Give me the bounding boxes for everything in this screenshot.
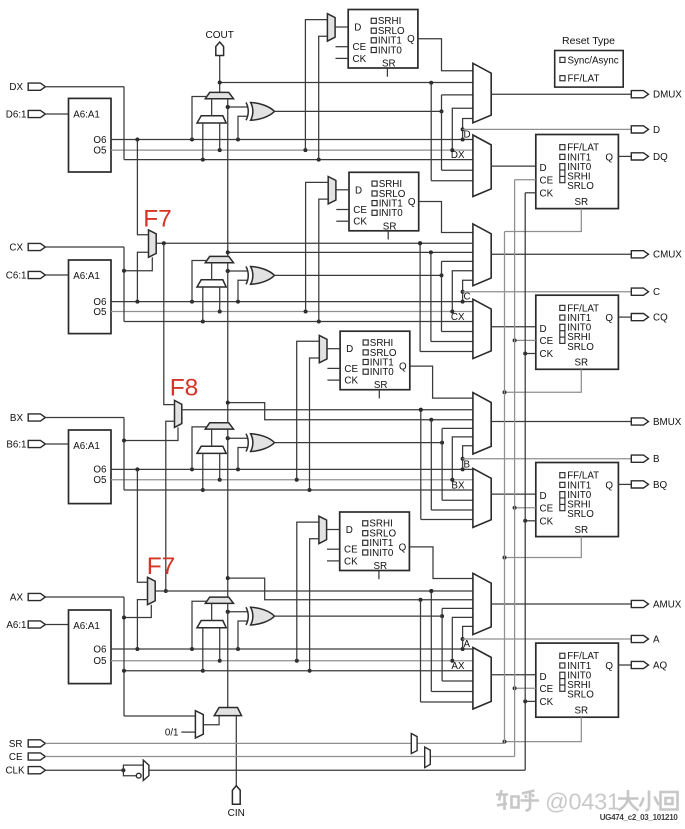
svg-text:O5: O5 bbox=[93, 475, 107, 486]
wire A6:1 to LUT A bbox=[45, 624, 68, 626]
svg-text:DX: DX bbox=[9, 82, 23, 93]
svg-text:D: D bbox=[346, 344, 353, 355]
output connector CMUX bbox=[631, 251, 648, 258]
mux on CE line bbox=[425, 747, 431, 768]
wire DMUX output bbox=[491, 93, 631, 95]
wire O5 to B5FF mux bbox=[297, 341, 320, 480]
wire CLK bus bbox=[45, 193, 525, 772]
wire CE to DFF bbox=[515, 179, 536, 181]
svg-text:D: D bbox=[540, 163, 547, 174]
output connector DQ bbox=[631, 153, 648, 160]
wire O5-mux to CX line (C) bbox=[202, 287, 204, 322]
svg-text:INIT0: INIT0 bbox=[370, 367, 395, 378]
svg-text:D: D bbox=[540, 324, 547, 335]
wire carry to XOR top input (A) bbox=[226, 610, 247, 614]
svg-text:O6: O6 bbox=[93, 644, 107, 655]
wire C5FF CK stub bbox=[336, 220, 349, 222]
svg-text:Q: Q bbox=[605, 661, 613, 672]
svg-text:DX: DX bbox=[451, 150, 465, 161]
LUT A6:A1 (B) bbox=[69, 430, 112, 504]
wire BX bypass bbox=[45, 418, 473, 493]
svg-text:D: D bbox=[346, 525, 353, 536]
svg-text:AX: AX bbox=[10, 592, 24, 603]
svg-text:INIT0: INIT0 bbox=[379, 208, 404, 219]
storage element BFF/LAT bbox=[536, 463, 619, 537]
wire O5 (B) bbox=[111, 478, 473, 482]
output mux BMUX bbox=[473, 393, 491, 454]
wire BMUX output bbox=[491, 421, 631, 423]
wire O5 to A5FF mux bbox=[297, 522, 319, 661]
wire 0/1 mux to CYINIT bbox=[203, 716, 219, 725]
wire carry to XOR top input (B) bbox=[226, 436, 247, 440]
wire O5-mux to BX line (B) bbox=[202, 453, 204, 490]
wire O6(A) to F7 input bbox=[137, 600, 147, 649]
output connector AQ bbox=[631, 661, 648, 668]
svg-text:BX: BX bbox=[451, 480, 465, 491]
wire O6(C) to F7 input bbox=[137, 252, 148, 301]
watermark zhihu @0431 bbox=[496, 789, 678, 815]
wire 0/1 stub bbox=[181, 731, 195, 733]
wire CX to C5FF mux bbox=[319, 199, 328, 321]
wire CLK to CFF bbox=[523, 352, 536, 356]
wire O5-mux to O5 line (C) bbox=[219, 287, 221, 312]
node CIN bbox=[232, 786, 240, 805]
wire DFF Q output bbox=[618, 155, 631, 157]
storage element D5FF bbox=[348, 10, 418, 70]
svg-text:D: D bbox=[540, 491, 547, 502]
svg-text:CK: CK bbox=[344, 376, 358, 387]
wire F-mux branch (C) bbox=[418, 241, 473, 351]
wire CLK inverted branch bbox=[123, 770, 136, 776]
wire B output bbox=[463, 458, 632, 460]
wire D5FF D input bbox=[335, 26, 348, 28]
mux CLK inversion bbox=[143, 760, 149, 780]
mux F7 (D/C) bbox=[149, 230, 157, 257]
wire A5FF CK stub bbox=[327, 560, 340, 562]
wire XOR output (C) bbox=[275, 261, 473, 331]
output connector BQ bbox=[631, 481, 648, 488]
wire mux to BFF D bbox=[491, 493, 536, 495]
svg-text:AX: AX bbox=[451, 661, 465, 672]
svg-text:D: D bbox=[464, 130, 471, 141]
wire AFF SR bbox=[503, 717, 582, 743]
wire O6 to output mux (D) bbox=[461, 119, 473, 140]
mux for C5FF D input bbox=[328, 177, 336, 204]
svg-text:SR: SR bbox=[574, 197, 588, 208]
svg-text:CX: CX bbox=[451, 312, 465, 323]
svg-text:CK: CK bbox=[540, 188, 554, 199]
output connector DMUX bbox=[631, 91, 648, 98]
wire AX to 0/1 mux bbox=[122, 669, 195, 716]
svg-text:CE: CE bbox=[9, 752, 23, 763]
carry O5 mux (D) bbox=[197, 116, 226, 123]
output connector B bbox=[631, 455, 648, 462]
LUT A6:A1 (C) bbox=[69, 260, 112, 334]
svg-text:CK: CK bbox=[540, 349, 554, 360]
input connector AX bbox=[28, 593, 45, 600]
svg-text:CK: CK bbox=[540, 516, 554, 527]
svg-text:Q: Q bbox=[407, 34, 415, 45]
mux CYINIT bbox=[214, 708, 241, 716]
wire D5FF CE stub bbox=[336, 46, 349, 48]
svg-text:Q: Q bbox=[605, 480, 613, 491]
wire AMUX output bbox=[491, 603, 631, 605]
svg-text:SRLO: SRLO bbox=[567, 181, 594, 192]
wire O6 select to MUXCY (B) bbox=[192, 427, 207, 470]
wire O6 (C) to output mux bbox=[111, 300, 473, 304]
svg-text:CLK: CLK bbox=[5, 766, 25, 777]
wire BX to B5FF mux bbox=[310, 358, 320, 490]
wire O6 to output mux (C) bbox=[461, 280, 473, 301]
wire XOR output (D) bbox=[275, 95, 473, 170]
wire A5FF CE stub bbox=[327, 548, 340, 550]
storage element C5FF bbox=[349, 172, 419, 232]
wire mux to DFF D bbox=[491, 165, 536, 167]
wire CLK to BFF bbox=[523, 519, 536, 523]
svg-text:@0431: @0431 bbox=[545, 789, 620, 815]
output connector D bbox=[631, 126, 648, 133]
wire CE bus bbox=[45, 180, 514, 757]
wire O5 to output mux (C) bbox=[452, 271, 473, 312]
wire A5FF D input bbox=[327, 529, 340, 531]
wire O6 to XOR bottom input (B) bbox=[238, 448, 248, 470]
svg-text:COUT: COUT bbox=[206, 30, 234, 41]
svg-text:BMUX: BMUX bbox=[653, 417, 682, 428]
storage element A5FF bbox=[340, 512, 410, 572]
wire F7(D/C) to F8 input bbox=[164, 243, 175, 404]
wire O5 to D5FF mux bbox=[305, 20, 327, 151]
svg-text:CK: CK bbox=[353, 217, 367, 228]
wire CX select to F7 bbox=[122, 257, 152, 273]
wire COUT stub bbox=[218, 56, 222, 93]
legend Reset Type bbox=[555, 35, 624, 87]
svg-text:O5: O5 bbox=[93, 307, 107, 318]
output connector A bbox=[631, 635, 648, 642]
svg-text:A6:1: A6:1 bbox=[6, 620, 26, 631]
wire CLK true branch bbox=[123, 765, 143, 770]
wire F7 (B/A) output bbox=[155, 589, 473, 593]
wire O6 to output mux (A) bbox=[461, 626, 473, 649]
svg-text:CE: CE bbox=[540, 503, 554, 514]
wire O5-mux to O5 line (A) bbox=[219, 628, 221, 661]
wire XOR output (B) bbox=[275, 428, 473, 500]
wire MUXCY to O5-mux (D) bbox=[211, 99, 213, 116]
wire F7(B/A) to F8 input bbox=[164, 421, 175, 593]
storage element DFF/LAT bbox=[536, 135, 619, 209]
wire CX bypass bbox=[45, 247, 473, 324]
svg-text:CE: CE bbox=[344, 364, 358, 375]
input connector CE bbox=[28, 753, 45, 760]
svg-text:D: D bbox=[540, 672, 547, 683]
svg-text:Q: Q bbox=[408, 197, 416, 208]
svg-text:A: A bbox=[653, 634, 660, 645]
wire O5 (C) bbox=[111, 310, 473, 314]
wire C5FF D input bbox=[336, 189, 349, 191]
wire D5FF CK stub bbox=[336, 57, 349, 59]
output connector CQ bbox=[631, 314, 648, 321]
wire CE to CFF bbox=[513, 338, 536, 342]
svg-text:CE: CE bbox=[353, 42, 367, 53]
output mux AMUX bbox=[473, 573, 491, 634]
output mux CMUX bbox=[473, 224, 491, 286]
svg-text:SR: SR bbox=[373, 561, 387, 572]
wire carry-out tap (D) bbox=[220, 81, 473, 181]
svg-text:SR: SR bbox=[382, 59, 396, 70]
wire D5FF SR stub bbox=[386, 68, 388, 77]
wire O6 to XOR bottom input (A) bbox=[238, 621, 248, 649]
svg-text:C: C bbox=[653, 287, 660, 298]
svg-text:F7: F7 bbox=[143, 206, 172, 233]
svg-text:CK: CK bbox=[344, 556, 358, 567]
mux for D5FF D input bbox=[327, 14, 335, 41]
wire O6 (A) to output mux bbox=[111, 647, 473, 651]
wire O5 (A) bbox=[111, 659, 473, 663]
wire carry-out tap (A) bbox=[228, 578, 473, 702]
wire DX to D5FF mux bbox=[319, 36, 328, 159]
carry O5 mux (A) bbox=[197, 621, 226, 628]
input connector D6:1 bbox=[28, 110, 45, 117]
wire C6:1 to LUT C bbox=[45, 274, 68, 276]
inverter bubble on CLK bbox=[136, 773, 141, 778]
wire CFF SR bbox=[503, 369, 582, 394]
wire B6:1 to LUT B bbox=[45, 443, 68, 445]
wire MUXCY to O5-mux (A) bbox=[211, 603, 213, 620]
wire D5FF Q to output mux bbox=[418, 39, 473, 71]
input connector A6:1 bbox=[28, 621, 45, 628]
input connector BX bbox=[28, 414, 45, 421]
wire O6 (B) to output mux bbox=[111, 467, 473, 471]
wire C5FF Q to output mux bbox=[419, 202, 473, 233]
svg-text:Q: Q bbox=[399, 542, 407, 553]
svg-text:F7: F7 bbox=[147, 553, 176, 580]
wire CFF Q output bbox=[618, 316, 631, 318]
input mux for DFF bbox=[473, 135, 491, 197]
wire MUXCY to O5-mux (C) bbox=[211, 263, 213, 280]
wire CE to AFF bbox=[513, 686, 536, 690]
output connector C bbox=[631, 288, 648, 295]
svg-text:D: D bbox=[653, 125, 660, 136]
wire O6 to output mux (B) bbox=[461, 446, 473, 470]
wire A output bbox=[463, 638, 632, 640]
wire F-mux branch (A) bbox=[429, 589, 473, 692]
input mux for BFF bbox=[473, 468, 491, 527]
storage element B5FF bbox=[340, 331, 410, 391]
wire O6 select to MUXCY (C) bbox=[192, 261, 207, 302]
svg-text:CE: CE bbox=[540, 175, 554, 186]
wire A5FF Q to output mux bbox=[409, 547, 473, 579]
svg-text:CE: CE bbox=[540, 336, 554, 347]
wire O5-mux to AX line (A) bbox=[202, 628, 204, 671]
wire AX bypass bbox=[45, 597, 473, 673]
svg-text:SRLO: SRLO bbox=[567, 690, 594, 701]
svg-text:C: C bbox=[464, 292, 471, 303]
svg-text:Reset Type: Reset Type bbox=[562, 35, 615, 47]
mux F7 (B/A) bbox=[148, 577, 156, 604]
svg-text:A6:A1: A6:A1 bbox=[73, 271, 100, 282]
wire D output bbox=[463, 128, 632, 130]
svg-text:INIT0: INIT0 bbox=[369, 548, 394, 559]
carry MUXCY (C) bbox=[205, 256, 233, 262]
svg-text:CK: CK bbox=[540, 697, 554, 708]
wire BX select to F8 bbox=[122, 427, 178, 442]
wire C output bbox=[463, 291, 632, 293]
wire B5FF CK stub bbox=[327, 379, 340, 381]
svg-text:SR: SR bbox=[574, 705, 588, 716]
wire carry-out tap (B) bbox=[228, 403, 473, 510]
mux for B5FF D input bbox=[319, 335, 327, 362]
wire F7 (D/C) output bbox=[156, 241, 473, 245]
wire A5FF SR stub bbox=[378, 571, 380, 580]
wire O6 to XOR bottom input (C) bbox=[238, 280, 248, 301]
svg-text:B6:1: B6:1 bbox=[6, 439, 26, 450]
wire C5FF CE stub bbox=[336, 209, 349, 211]
wire CLK to DFF bbox=[525, 192, 536, 194]
wire carry-out tap (C) bbox=[228, 250, 473, 341]
wire O6(D) to F7 input bbox=[137, 140, 148, 235]
svg-text:BX: BX bbox=[10, 413, 24, 424]
wire B5FF D input bbox=[327, 348, 340, 350]
carry O5 mux (B) bbox=[197, 446, 226, 453]
wire O5-mux to O5 line (B) bbox=[219, 453, 221, 479]
wire CIN to CYINIT bbox=[235, 716, 237, 786]
wire O6 to XOR bottom input (D) bbox=[238, 116, 248, 139]
LUT A6:A1 (A) bbox=[69, 610, 112, 684]
svg-text:A6:A1: A6:A1 bbox=[73, 621, 100, 632]
input mux for AFF bbox=[473, 648, 491, 710]
wire carry chain B->C bbox=[226, 263, 230, 441]
wire DFF SR bbox=[505, 209, 582, 232]
mux 0/1 (CYINIT select) bbox=[195, 711, 203, 738]
carry MUXCY (A) bbox=[205, 597, 233, 603]
wire CLK to AFF bbox=[523, 699, 536, 703]
svg-text:CE: CE bbox=[344, 545, 358, 556]
wire XOR output (A) bbox=[275, 608, 473, 681]
svg-text:CE: CE bbox=[540, 684, 554, 695]
input connector B6:1 bbox=[28, 440, 45, 447]
svg-text:INIT0: INIT0 bbox=[378, 45, 403, 56]
svg-text:CMUX: CMUX bbox=[653, 250, 682, 261]
svg-text:SR: SR bbox=[574, 358, 588, 369]
svg-text:Q: Q bbox=[605, 313, 613, 324]
svg-text:O5: O5 bbox=[93, 656, 107, 667]
svg-text:Sync/Async: Sync/Async bbox=[568, 55, 619, 66]
svg-text:BQ: BQ bbox=[653, 480, 668, 491]
output mux DMUX bbox=[473, 63, 491, 123]
XOR gate XORCY (B) bbox=[246, 434, 275, 452]
wire O5 to output mux (D) bbox=[452, 108, 473, 150]
svg-text:DQ: DQ bbox=[653, 152, 668, 163]
svg-text:A6:A1: A6:A1 bbox=[73, 110, 100, 121]
wire DX bypass bbox=[45, 87, 473, 162]
svg-text:0/1: 0/1 bbox=[165, 727, 179, 738]
wire O6 select to MUXCY (D) bbox=[192, 97, 207, 140]
carry O5 mux (C) bbox=[197, 280, 226, 287]
output connector BMUX bbox=[631, 418, 648, 425]
input connector CLK bbox=[28, 767, 45, 774]
carry MUXCY (D) bbox=[205, 92, 233, 98]
input mux for CFF bbox=[473, 299, 491, 358]
node COUT bbox=[216, 42, 224, 56]
wire AX to A5FF mux bbox=[310, 539, 319, 671]
storage element CFF/LAT bbox=[536, 295, 619, 369]
wire CMUX output bbox=[491, 253, 631, 255]
mux on SR line bbox=[411, 734, 417, 754]
svg-text:Q: Q bbox=[399, 362, 407, 373]
svg-text:CIN: CIN bbox=[228, 808, 245, 819]
wire B5FF Q to output mux bbox=[410, 366, 473, 398]
svg-text:A6:A1: A6:A1 bbox=[73, 441, 100, 452]
wire F-mux branch (B) bbox=[419, 408, 473, 520]
svg-text:CX: CX bbox=[9, 242, 23, 253]
svg-text:SR: SR bbox=[374, 380, 388, 391]
wire MUXCY to O5-mux (B) bbox=[211, 429, 213, 446]
svg-text:O5: O5 bbox=[93, 145, 107, 156]
svg-text:CE: CE bbox=[353, 205, 367, 216]
wire B5FF CE stub bbox=[327, 367, 340, 369]
wire carry to XOR top input (C) bbox=[226, 269, 247, 273]
svg-text:SR: SR bbox=[383, 221, 397, 232]
wire carry chain CYINIT->A bbox=[227, 603, 229, 707]
svg-text:D6:1: D6:1 bbox=[6, 109, 27, 120]
svg-text:D: D bbox=[355, 185, 362, 196]
LUT A6:A1 (D) bbox=[69, 98, 112, 172]
wire AFF Q output bbox=[618, 664, 631, 666]
input connector DX bbox=[28, 83, 45, 90]
svg-text:SR: SR bbox=[9, 739, 23, 750]
svg-text:B: B bbox=[653, 454, 660, 465]
output connector AMUX bbox=[631, 600, 648, 607]
wire carry to XOR top input (D) bbox=[226, 105, 247, 109]
svg-text:F8: F8 bbox=[170, 375, 199, 402]
storage element AFF/LAT bbox=[536, 643, 619, 717]
wire carry chain C->D bbox=[226, 99, 230, 273]
svg-text:FF/LAT: FF/LAT bbox=[568, 74, 600, 85]
wire CE to BFF bbox=[513, 506, 536, 510]
wire AX select to F7 bbox=[122, 605, 151, 620]
svg-text:DMUX: DMUX bbox=[653, 90, 682, 101]
svg-text:SRLO: SRLO bbox=[567, 509, 594, 520]
XOR gate XORCY (D) bbox=[246, 103, 275, 121]
carry MUXCY (B) bbox=[205, 423, 233, 429]
wire O5-mux to O5 line (D) bbox=[219, 123, 221, 150]
input connector C6:1 bbox=[28, 271, 45, 278]
wire O6(B) to F7 input bbox=[137, 469, 147, 582]
input connector SR bbox=[28, 740, 45, 747]
svg-text:B: B bbox=[464, 459, 471, 470]
wire O5 to C5FF mux bbox=[306, 182, 329, 311]
wire F8 output bbox=[182, 408, 473, 412]
svg-text:AQ: AQ bbox=[653, 660, 668, 671]
wire B5FF SR stub bbox=[378, 390, 380, 399]
svg-text:Q: Q bbox=[605, 152, 613, 163]
mux F8 bbox=[175, 400, 182, 427]
wire C5FF SR stub bbox=[387, 231, 389, 240]
wire O5 to output mux (A) bbox=[452, 617, 473, 660]
wire carry chain A->B bbox=[226, 429, 230, 614]
XOR gate XORCY (A) bbox=[246, 607, 275, 625]
XOR gate XORCY (C) bbox=[246, 267, 275, 285]
svg-text:AMUX: AMUX bbox=[653, 599, 682, 610]
svg-text:CK: CK bbox=[353, 54, 367, 65]
wire BFF SR bbox=[503, 537, 582, 560]
input connector CX bbox=[28, 243, 45, 250]
wire mux to CFF D bbox=[491, 326, 536, 328]
svg-text:A: A bbox=[464, 639, 471, 650]
svg-text:CQ: CQ bbox=[653, 313, 668, 324]
svg-text:SR: SR bbox=[574, 525, 588, 536]
svg-text:O6: O6 bbox=[93, 135, 107, 146]
wire D6:1 to LUT D bbox=[45, 113, 68, 115]
